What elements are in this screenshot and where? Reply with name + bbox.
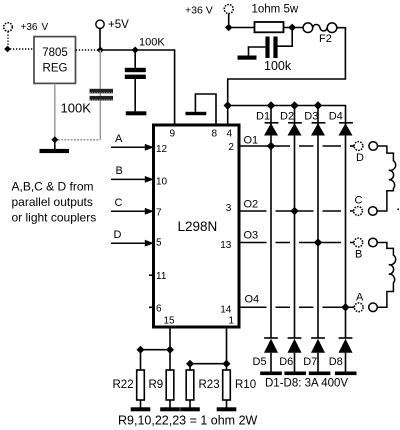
svg-text:D8: D8 [329,356,343,368]
diode D5 [253,338,279,372]
wire +5V rail down (gray) [99,50,101,140]
input C [111,197,154,215]
ground (D6) [284,372,306,376]
node junction ground left [51,136,58,143]
wire column D4/D8 [345,123,347,338]
wire O1 / line D [241,145,355,147]
wire R9 stub [169,350,171,370]
wire pin 1 down [226,329,228,364]
ground (R9) [160,407,180,411]
resistor R10 [223,370,256,408]
svg-text:100K: 100K [139,37,165,49]
svg-text:R9,10,22,23 = 1 ohm 2W: R9,10,22,23 = 1 ohm 2W [118,414,258,428]
pin 6 stub [149,306,152,308]
node junction +5V rail [97,47,104,54]
svg-text:C: C [355,195,363,207]
ground (D7) [309,372,331,376]
svg-text:7805: 7805 [42,47,68,59]
svg-text:1ohm 5w: 1ohm 5w [252,4,299,16]
ground (R10) [217,407,237,411]
svg-text:D7: D7 [303,356,317,368]
svg-text:O4: O4 [245,294,260,306]
svg-text:11: 11 [156,271,167,282]
resistor R9 [149,370,174,408]
svg-text:D: D [114,229,122,241]
ground (7805) [40,140,70,153]
wire to resistor 1ohm [229,27,255,29]
svg-text:C: C [115,197,123,209]
svg-text:A: A [115,133,123,145]
wire column D1/D5 [270,106,272,338]
terminal +5V [96,19,129,31]
svg-text:V: V [42,22,49,33]
svg-text:R9: R9 [149,379,164,391]
svg-text:2: 2 [228,142,234,153]
node junction bus D1 [267,101,275,109]
motor coil 1 [377,146,395,211]
svg-text:100K: 100K [61,101,92,116]
wire O4 / line A [241,306,355,308]
ground (R23) [180,407,200,411]
wire R22-R9 link [141,349,171,351]
svg-text:D: D [356,152,364,164]
svg-text:R10: R10 [235,379,256,391]
svg-text:B: B [116,165,123,177]
svg-text:A: A [356,291,364,303]
node junction R9 top [166,346,174,354]
svg-text:3: 3 [226,203,232,214]
diode D1 [256,110,278,135]
diode D4 [329,110,353,135]
ground (D5) [260,372,282,376]
svg-text:15: 15 [164,316,176,327]
wire O2 / line C [241,210,354,212]
svg-text:D1: D1 [256,110,270,122]
terminal pair B [354,238,377,260]
terminal +36V right [185,5,233,17]
resistor R22 [113,370,145,408]
diode D6 [279,338,301,372]
svg-text:O1: O1 [244,135,259,147]
wire +5V rail to pin9 corner [100,50,174,124]
svg-text:12: 12 [156,144,168,155]
svg-text:+36 V: +36 V [185,5,213,17]
wire 7805 out to +5V junction (dotted) [76,49,98,51]
input D [111,229,154,247]
svg-text:A,B,C & D from: A,B,C & D from [12,180,94,194]
wire +5V terminal down [99,29,101,51]
wire R22 stub [140,350,142,370]
wire O3 / line B [241,242,354,244]
svg-text:1: 1 [229,316,235,327]
terminal pair D [354,142,377,164]
node junction bus D2 [290,101,298,109]
node junction R10 top [223,360,231,368]
svg-text:D3: D3 [304,110,318,122]
wire column D3/D7 [317,106,319,338]
node junction +36 left [4,46,11,53]
svg-text:or light couplers: or light couplers [12,211,97,225]
svg-text:D6: D6 [279,356,293,368]
svg-text:4: 4 [227,129,233,140]
diode D7 [303,338,325,372]
regulator 7805 [34,37,76,84]
capacitor 100k (36V rail) [249,28,293,59]
terminal pair C [354,195,378,216]
diode D8 [329,338,353,372]
node junction after 1ohm [288,24,296,32]
node junction O1-D1 [267,142,275,150]
diode D2 [280,110,302,135]
wire fuse to right and down to bus feed [228,28,346,124]
svg-text:D1-D8: 3A 400V: D1-D8: 3A 400V [265,378,348,390]
node junction O4-D4 [341,303,349,311]
ground (R22) [131,407,151,411]
wire junction to 7805 (dotted) [10,48,34,50]
svg-text:O3: O3 [244,230,259,242]
svg-text:14: 14 [220,304,232,315]
wire gray horizontal to ground junction [55,139,101,141]
wire R10 stub [226,364,228,370]
motor coil 2 [377,243,395,308]
resistor 1ohm 5w [252,4,299,33]
ground (cap 100K top) [126,111,147,115]
wire R23 stub [189,364,191,370]
svg-text:B: B [355,248,362,260]
node junction bus T [224,101,232,109]
svg-text:R23: R23 [199,379,220,391]
ground flag pin 8 [186,94,217,124]
resistor R23 [186,370,219,408]
terminal +36V left [4,22,49,33]
wire R23-R10 link [190,363,227,365]
ground (100k cap) [238,56,257,60]
svg-text:D4: D4 [329,110,343,122]
node junction cap 100K [132,47,139,54]
input B [111,165,154,183]
capacitor 100K left (striped) [90,89,114,101]
svg-text:+36: +36 [21,22,38,33]
svg-text:R22: R22 [113,379,134,391]
svg-text:F2: F2 [319,33,332,45]
wire stub to terminal D [350,145,354,147]
svg-text:O2: O2 [244,199,259,211]
IC L298N [154,125,240,327]
svg-text:D2: D2 [280,110,294,122]
svg-text:+5V: +5V [108,19,129,31]
capacitor 100K top [125,50,146,111]
node junction R23 top [186,360,194,368]
svg-text:13: 13 [220,240,232,251]
svg-text:100k: 100k [264,59,292,73]
wire 7805 ground down (gray) [54,84,56,140]
fuse F2 [303,23,337,45]
node junction O2-D2 [290,207,298,215]
wire terminal to junction (dotted) [7,32,9,49]
svg-text:6: 6 [156,304,162,315]
diode D3 [304,110,325,135]
svg-text:9: 9 [170,129,176,140]
svg-text:L298N: L298N [178,219,218,234]
node junction R22 top [137,346,145,354]
wire pin 15 down [169,329,171,350]
ground (D8) [335,372,357,376]
note text left [12,180,97,225]
node junction +36 right [225,24,232,31]
svg-text:5: 5 [156,238,162,249]
stray dot [397,209,399,211]
wire column D2/D6 [294,106,296,338]
pin 11 stub [149,274,152,276]
wire resistor to fuse [284,27,304,29]
svg-text:7: 7 [156,208,162,219]
svg-text:REG: REG [43,63,68,75]
node junction bus D3 [314,101,322,109]
input A [111,133,154,151]
wire +36V right down [228,14,230,28]
svg-text:parallel outputs: parallel outputs [12,195,93,209]
svg-text:8: 8 [212,129,218,140]
svg-text:10: 10 [156,176,168,187]
terminal pair A [354,291,377,311]
wire +36 bus to diodes [228,106,346,123]
svg-text:D5: D5 [253,356,267,368]
node junction O3-D3 [314,238,322,246]
